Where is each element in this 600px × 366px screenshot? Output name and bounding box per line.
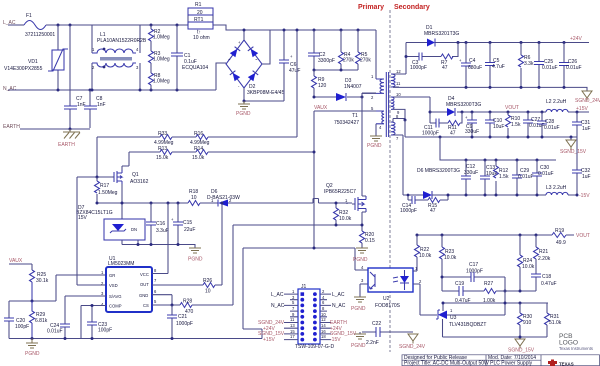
svg-text:4.7uF: 4.7uF [492, 64, 505, 70]
pgnd symbol at C22 [359, 332, 361, 334]
resistor R2 [150, 25, 152, 90]
svg-text:15V: 15V [78, 215, 88, 221]
svg-text:EARTH: EARTH [3, 124, 20, 130]
svg-text:10uF: 10uF [493, 124, 504, 130]
svg-text:0.47uF: 0.47uF [541, 281, 557, 287]
wire GR riser [55, 275, 57, 301]
svg-text:910: 910 [523, 320, 532, 326]
transformer T1 secondary winding 8-7 [391, 122, 395, 135]
capacitor C1 [176, 25, 178, 90]
svg-text:120: 120 [318, 83, 327, 89]
connector J1 pins right column [313, 292, 317, 296]
transformer T1 primary winding [375, 30, 377, 79]
svg-text:1000pF: 1000pF [400, 208, 417, 214]
snubber C14 R15 [408, 195, 448, 200]
wire startup row 1 [97, 136, 297, 138]
snubber wire C3 R7 [406, 43, 458, 57]
svg-text:RT1: RT1 [194, 17, 204, 23]
title block table [402, 355, 600, 366]
capacitor C8 [89, 90, 91, 128]
resistor R17 [96, 177, 98, 203]
capacitor C27 [527, 112, 529, 137]
svg-text:Texas Instruments: Texas Instruments [559, 346, 593, 351]
wire R33 column down [96, 137, 98, 177]
svg-text:1000pF: 1000pF [176, 321, 193, 327]
resistor R3 [149, 51, 154, 63]
svg-text:Primary: Primary [358, 4, 384, 11]
wire upper fb node row [443, 291, 548, 315]
capacitor C30 [536, 160, 538, 195]
wire GR pin wire [56, 274, 106, 276]
svg-text:SGND_15V: SGND_15V [560, 149, 587, 155]
svg-text:0.01uF: 0.01uF [566, 65, 582, 71]
resistor R32 [335, 203, 337, 225]
SECTION: primary snubber and transformer [308, 4, 430, 352]
wire bridge plus riser [243, 30, 245, 40]
resistor R10 [507, 112, 509, 137]
svg-text:+15V: +15V [263, 337, 275, 343]
svg-text:-15V: -15V [330, 337, 341, 343]
svg-text:10.0k: 10.0k [444, 255, 457, 261]
resistor R1 [188, 15, 213, 25]
svg-text:OUT: OUT [140, 282, 149, 287]
transformer T1 secondary winding 12-11 [391, 74, 395, 87]
diode D1 [427, 39, 435, 47]
svg-text:L_AC: L_AC [332, 292, 345, 298]
connector J1 left stubs [284, 294, 298, 340]
wire fuse to R1 [46, 24, 188, 26]
SECTION: Q2 power stage [233, 183, 426, 350]
shunt ref U3 [438, 311, 447, 320]
svg-text:R27: R27 [484, 281, 493, 287]
svg-text:GND: GND [139, 293, 148, 298]
svg-text:49.9: 49.9 [556, 240, 566, 246]
svg-text:2.2nF: 2.2nF [366, 340, 379, 346]
capacitor C15 electrolytic [177, 203, 179, 245]
resistor R22 [416, 235, 418, 245]
svg-text:R14: R14 [194, 146, 203, 152]
wire feedback drop [243, 248, 262, 339]
svg-text:J1: J1 [301, 284, 307, 290]
svg-text:6.81k: 6.81k [35, 318, 48, 324]
svg-text:L2 2.2uH: L2 2.2uH [546, 99, 567, 105]
resistor R19 [552, 233, 566, 238]
capacitor C2 [313, 30, 315, 70]
capacitor C25 [538, 43, 540, 88]
snubber C11 R11 [430, 112, 462, 123]
resistor R4 [340, 30, 342, 70]
svg-text:LM5023MM: LM5023MM [108, 261, 134, 267]
diode D6 BAS21 [218, 200, 228, 207]
svg-text:C17: C17 [469, 262, 478, 268]
connector J1 right stubs [320, 294, 331, 340]
svg-text:PGND: PGND [351, 306, 366, 312]
svg-text:15.0k: 15.0k [156, 155, 169, 161]
wire Q1 gate row [77, 176, 112, 178]
resistor R18 [188, 201, 200, 206]
svg-text:C15: C15 [183, 220, 192, 226]
pgnd symbol under R20 [356, 248, 368, 253]
diode D3 [314, 96, 362, 98]
isolation dashed line [389, 10, 391, 352]
wire pin12 riser [405, 43, 407, 75]
svg-text:R26: R26 [203, 278, 212, 284]
svg-text:10: 10 [205, 289, 211, 295]
wire snubber bottom [314, 69, 358, 71]
svg-text:1N4007: 1N4007 [344, 84, 362, 90]
svg-text:TSW-109-07-G-D: TSW-109-07-G-D [295, 344, 334, 350]
resistor R5 [357, 30, 359, 70]
svg-text:0.15: 0.15 [365, 238, 375, 244]
connector J1 body [298, 289, 320, 344]
wire VSD riser [77, 177, 106, 285]
sgnd_24v symbol [582, 91, 592, 101]
svg-text:PGND: PGND [353, 257, 368, 263]
wire RT1 to main rail [213, 25, 376, 30]
capacitor C19 [459, 286, 463, 296]
svg-text:TLV431BQDBZT: TLV431BQDBZT [449, 322, 486, 328]
svg-text:R13: R13 [158, 146, 167, 152]
svg-text:1nF: 1nF [97, 102, 106, 108]
transformer T1 secondary winding 10-9 [391, 97, 394, 109]
sgnd_15v symbol upper [570, 137, 572, 140]
svg-text:3KBP08M-E4/45: 3KBP08M-E4/45 [247, 90, 284, 96]
resistor R29 [30, 301, 35, 339]
svg-text:PGND: PGND [351, 343, 366, 349]
resistor R31 [546, 303, 548, 313]
resistor R33 [160, 135, 172, 140]
capacitor C18 [531, 274, 541, 277]
resistor R27 [484, 289, 496, 294]
svg-text:30.1k: 30.1k [36, 278, 49, 284]
resistor R12 [495, 160, 497, 195]
junction dots on rail [313, 29, 316, 32]
svg-text:100pF: 100pF [98, 328, 112, 334]
wire pin7 drop [399, 135, 403, 195]
svg-text:R19: R19 [555, 228, 564, 234]
inductor L2 [546, 109, 568, 112]
svg-text:13: 13 [290, 323, 295, 328]
svg-text:U3: U3 [450, 315, 457, 321]
svg-text:330uF: 330uF [464, 170, 478, 176]
resistor R8 [149, 73, 154, 85]
transistor Q1 [114, 170, 122, 184]
resistor R6 [520, 43, 522, 88]
svg-text:Project Title: AC-DC Multi-Out: Project Title: AC-DC Multi-Output 50W PL… [404, 361, 533, 366]
svg-text:0.01uF: 0.01uF [542, 65, 558, 71]
diode D4 [447, 108, 455, 116]
svg-text:MBRS3200T3G: MBRS3200T3G [446, 102, 481, 108]
svg-text:SGND_24V: SGND_24V [399, 344, 426, 350]
wire VAUX to divider [9, 264, 32, 270]
opto phototransistor [370, 272, 376, 289]
capacitor C26 [563, 43, 565, 88]
pgnd symbol at aux winding [370, 136, 382, 141]
svg-text:R16: R16 [194, 131, 203, 137]
svg-text:1.0Meg: 1.0Meg [153, 35, 170, 41]
wire bottom ground bus [9, 338, 262, 340]
svg-text:PGND: PGND [188, 257, 203, 263]
svg-text:1.50Meg: 1.50Meg [98, 190, 118, 196]
svg-text:14: 14 [321, 323, 326, 328]
resistor R15 [428, 198, 440, 203]
wire D3 to Q2 drain column [361, 96, 364, 99]
wire Q2 gate stub [347, 203, 355, 204]
svg-text:12: 12 [396, 69, 401, 74]
resistor R26 [203, 283, 215, 288]
sgnd_15v symbol lower [515, 339, 525, 349]
resistor R7 [441, 54, 453, 59]
svg-text:C4: C4 [469, 58, 476, 64]
capacitor C23 [87, 322, 97, 325]
wire EARTH rail [20, 128, 90, 130]
svg-text:VSD: VSD [109, 283, 118, 288]
svg-text:EARTH: EARTH [58, 142, 75, 148]
svg-text:10: 10 [396, 92, 401, 97]
svg-text:U2: U2 [383, 296, 390, 302]
resistor R11 [448, 121, 460, 126]
resistor R24 [519, 235, 521, 255]
svg-text:FOD8170S: FOD8170S [375, 303, 401, 309]
svg-text:18: 18 [321, 334, 326, 339]
svg-text:11: 11 [290, 317, 295, 322]
svg-text:Q1: Q1 [132, 172, 139, 178]
capacitor C13 [484, 160, 486, 195]
wire bridge bottom [244, 88, 284, 101]
resistor R9 [313, 70, 315, 97]
svg-text:10.0k: 10.0k [522, 264, 535, 270]
wire R13 column to Q1 drain [122, 152, 129, 171]
transformer T1 aux winding [376, 111, 384, 124]
svg-text:R33: R33 [158, 131, 167, 137]
svg-text:750342427: 750342427 [334, 120, 359, 126]
svg-text:1.0Meg: 1.0Meg [153, 79, 170, 85]
wire opto pin1 drop [413, 270, 417, 272]
svg-text:0.01uF: 0.01uF [544, 125, 560, 131]
pgnd symbol at C15 [189, 248, 201, 253]
wire N_AC rail [8, 89, 216, 91]
capacitor C5 [489, 43, 491, 88]
wire VAUX to aux winding [314, 110, 376, 112]
wire startup row 2 [129, 151, 314, 153]
capacitor C6 bulk [283, 30, 285, 101]
wire OUT to gate drive [152, 203, 222, 285]
capacitor C16 [150, 203, 152, 245]
svg-text:47: 47 [430, 208, 436, 214]
wire S/AVG pin to C24 [65, 296, 106, 324]
capacitor C4 electrolytic [465, 43, 467, 88]
svg-text:680uF: 680uF [468, 65, 482, 71]
resistor R20 [360, 231, 365, 243]
capacitor C28 [541, 112, 543, 137]
pgnd symbol under opto [354, 297, 366, 302]
svg-text:DN: DN [131, 227, 137, 232]
wire bridge right to rail [262, 30, 270, 64]
svg-text:R21: R21 [539, 249, 548, 255]
zener diode inside D7 [112, 224, 124, 231]
svg-text:R28: R28 [183, 299, 192, 305]
svg-text:V14E300PX2855: V14E300PX2855 [4, 66, 43, 72]
wire +15V rail [430, 111, 589, 113]
capacitor C29 [516, 160, 518, 195]
pgnd symbol on bottom bus [26, 339, 38, 349]
svg-text:1.5k: 1.5k [499, 174, 509, 180]
wire VAUX vertical [313, 111, 315, 248]
svg-text:L_AC: L_AC [271, 292, 284, 298]
opto light arrows [393, 277, 398, 282]
svg-text:270k: 270k [360, 58, 371, 64]
svg-text:Secondary: Secondary [394, 4, 430, 11]
svg-text:3300pF: 3300pF [318, 58, 335, 64]
svg-text:47uF: 47uF [289, 68, 300, 74]
capacitor C24 [60, 324, 70, 327]
resistor R25 [30, 270, 35, 301]
resistor R21 [535, 235, 537, 247]
capacitor C14 [412, 196, 415, 204]
wire mid feedback row [442, 290, 536, 292]
wire -15V top branch [440, 137, 556, 160]
svg-text:100pF: 100pF [15, 324, 29, 330]
capacitor C9 electrolytic [471, 112, 473, 137]
svg-text:SGND_24V: SGND_24V [575, 98, 600, 104]
transformer T1 core [386, 72, 388, 137]
wire 15V return rail [405, 120, 577, 137]
resistor R14 [196, 150, 208, 155]
svg-text:PGND: PGND [25, 351, 40, 357]
svg-text:ECQUA104: ECQUA104 [182, 65, 208, 71]
TI logo [548, 360, 557, 366]
capacitor C11 [436, 119, 439, 128]
svg-text:PGND: PGND [367, 143, 382, 149]
svg-text:N_AC: N_AC [332, 303, 346, 309]
fuse F1 [24, 21, 46, 30]
svg-text:0.01uF: 0.01uF [47, 329, 63, 335]
ic U1 LM5023 [106, 267, 152, 312]
svg-text:PLA10AN1522R0R2B: PLA10AN1522R0R2B [97, 38, 147, 44]
bridge diode top-right [248, 47, 258, 58]
wire bridge left AC input [216, 63, 226, 90]
pgnd symbol under bridge [238, 101, 250, 109]
wire L_AC to fuse [8, 24, 24, 26]
diode D6 -15V rectifier [423, 191, 432, 199]
thermistor RT1 [188, 22, 213, 29]
junction dots on L line [57, 24, 60, 27]
svg-text:T1: T1 [352, 113, 358, 119]
svg-text:VOUT: VOUT [576, 233, 590, 239]
svg-text:1.5k: 1.5k [511, 122, 521, 128]
svg-text:VCC: VCC [140, 272, 149, 277]
wire sgnd row [443, 336, 548, 338]
capacitor C7 [69, 25, 71, 128]
inductor L3 [546, 192, 568, 195]
svg-text:S/AVG: S/AVG [109, 294, 122, 299]
svg-text:N_AC: N_AC [271, 303, 285, 309]
transistor Q2 [355, 196, 366, 212]
svg-text:47: 47 [450, 131, 456, 137]
wire CS pin [152, 225, 233, 305]
resistor R23 [441, 235, 443, 247]
SECTION: controller U1 [4, 177, 368, 357]
svg-text:1uF: 1uF [582, 126, 591, 132]
svg-text:0.01uF: 0.01uF [538, 171, 554, 177]
svg-text:47: 47 [442, 65, 448, 71]
SECTION: AC input top-left [3, 2, 376, 148]
bridge diode bottom-left [230, 71, 240, 82]
svg-text:TEXAS: TEXAS [559, 362, 574, 366]
wire 24V return rail [393, 87, 587, 91]
SECTION: feedback [413, 228, 590, 354]
SECTION: 24V output [393, 25, 600, 104]
capacitor C3 [419, 53, 422, 61]
opto U2 [368, 268, 413, 292]
SECTION: bridge and bulk [216, 29, 300, 138]
capacitor C20 [8, 301, 10, 339]
capacitor C12 electrolytic [465, 160, 467, 195]
svg-text:C18: C18 [542, 274, 551, 280]
svg-text:1000pF: 1000pF [410, 65, 427, 71]
svg-text:20: 20 [197, 10, 203, 16]
svg-text:10.0k: 10.0k [339, 216, 352, 222]
SECTION: title block [402, 333, 600, 366]
varistor VD1 [57, 25, 59, 90]
svg-text:L3 2.2uH: L3 2.2uH [546, 185, 567, 191]
svg-text:VD1: VD1 [28, 59, 38, 65]
wire opto pin3 to pgnd [360, 284, 368, 297]
svg-text:VOUT: VOUT [505, 105, 519, 111]
svg-text:C19: C19 [455, 281, 464, 287]
sgnd_24v symbol at C22 [408, 334, 418, 344]
svg-text:3.3k: 3.3k [524, 61, 534, 67]
SECTION: 15V outputs [399, 96, 591, 214]
svg-text:C16: C16 [156, 221, 165, 227]
svg-text:270k: 270k [343, 58, 354, 64]
wire 24V top rail [406, 42, 589, 44]
svg-text:1000pF: 1000pF [422, 131, 439, 137]
svg-text:C21: C21 [178, 314, 187, 320]
wire VCC supply row [97, 199, 347, 204]
SECTION: startup divider and Q1 [76, 131, 347, 263]
svg-text:AO3162: AO3162 [130, 179, 149, 185]
bridge diode bottom-right [248, 71, 258, 82]
svg-text:R17: R17 [100, 183, 109, 189]
wire D7 pins [122, 240, 138, 245]
svg-text:C22: C22 [372, 321, 381, 327]
svg-text:1uF: 1uF [582, 174, 591, 180]
svg-text:SGND_15V: SGND_15V [508, 348, 535, 354]
svg-text:37211250001: 37211250001 [25, 32, 55, 38]
svg-text:12: 12 [321, 317, 326, 322]
svg-text:0.01uF: 0.01uF [518, 174, 534, 180]
capacitor C10 [489, 112, 491, 137]
opto led [400, 276, 409, 283]
svg-text:330uF: 330uF [465, 129, 479, 135]
svg-text:+15V: +15V [576, 106, 588, 112]
zener box D7 [104, 219, 145, 240]
svg-text:GR: GR [109, 273, 115, 278]
capacitor C21 [171, 305, 173, 339]
svg-text:51.0k: 51.0k [549, 320, 562, 326]
svg-text:17: 17 [290, 334, 295, 339]
startup bleeder riser [296, 30, 298, 137]
bridge diode top-left [230, 47, 240, 58]
svg-text:MBRS3201T3G: MBRS3201T3G [424, 31, 459, 37]
connector J1 pins left column [301, 292, 305, 296]
svg-text:1.0Meg: 1.0Meg [153, 57, 170, 63]
capacitor C31 [576, 112, 578, 137]
svg-text:11: 11 [396, 81, 401, 86]
svg-text:3.3uF: 3.3uF [156, 228, 169, 234]
svg-text:2.20k: 2.20k [538, 256, 551, 262]
